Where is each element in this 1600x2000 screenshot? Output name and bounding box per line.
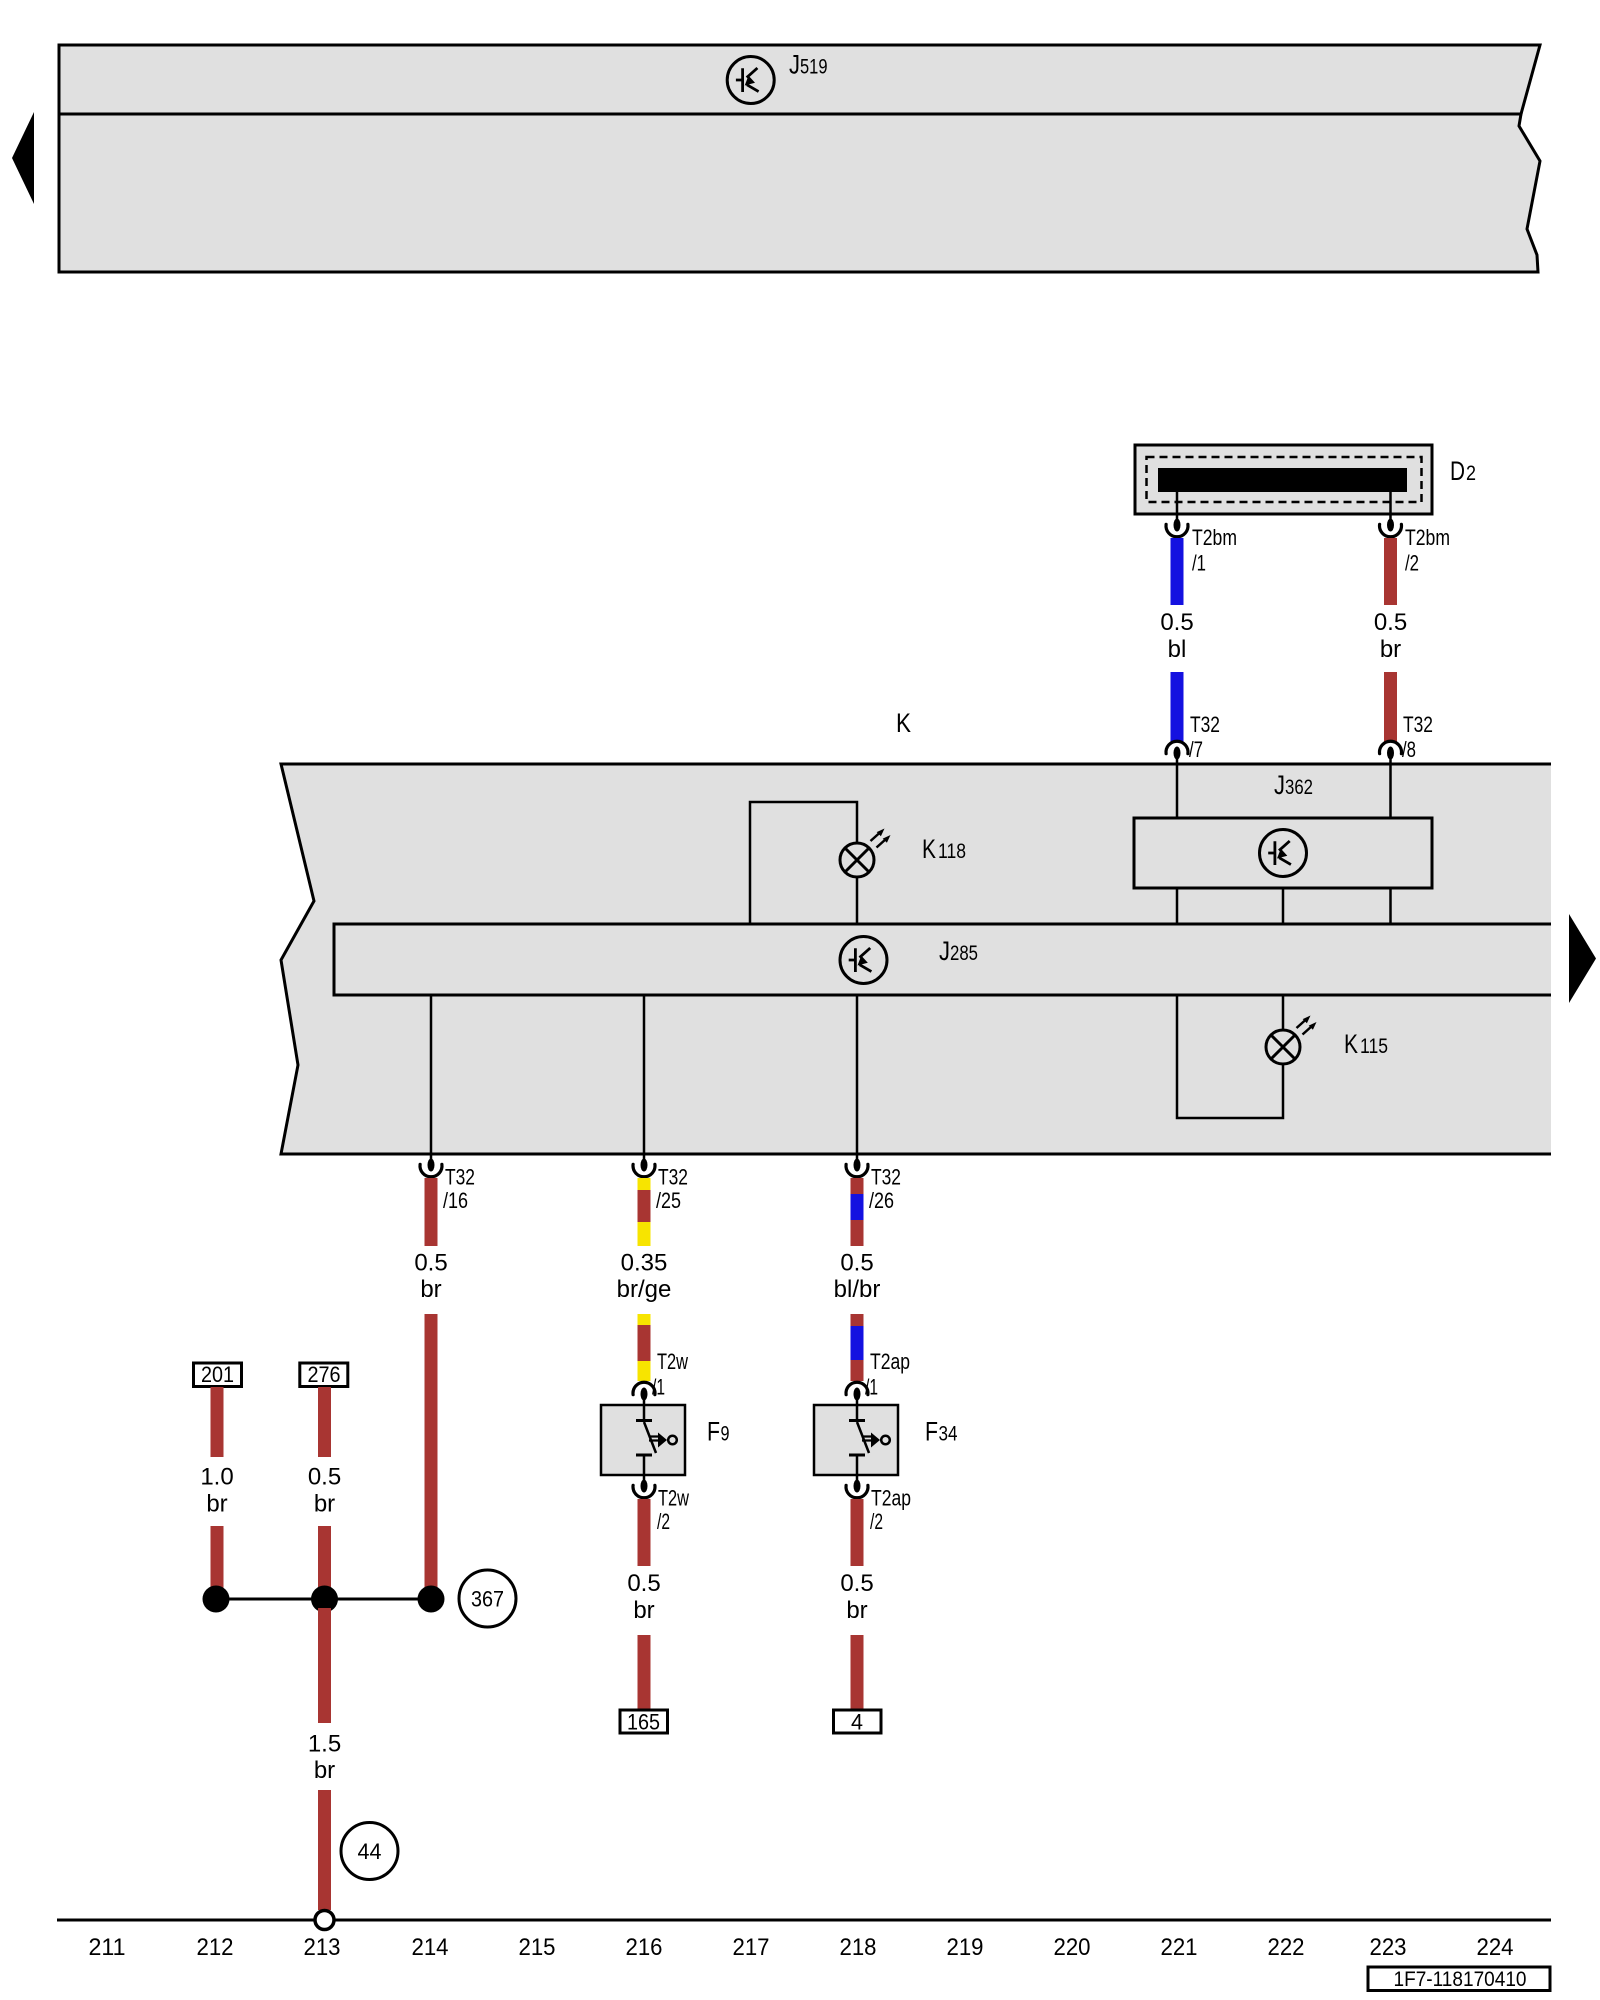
svg-text:bl: bl: [1168, 636, 1187, 663]
wire 0.5 bl (D2/1 to T32/7): [1171, 538, 1184, 605]
junction dot (276 branch): [311, 1586, 338, 1613]
terminal box 276: [300, 1363, 348, 1387]
wire 1.0 br (from 201) segment 2: [211, 1526, 224, 1593]
svg-text:0.5: 0.5: [627, 1570, 660, 1597]
svg-text:218: 218: [840, 1934, 877, 1961]
junction bus wire: [216, 1598, 431, 1601]
control unit symbol J362: [1260, 830, 1307, 877]
wire 1.0 br (from 201) segment 1: [211, 1387, 224, 1457]
svg-text:T32: T32: [1190, 712, 1220, 737]
svg-text:D: D: [1450, 456, 1465, 486]
node circle 44: [341, 1823, 398, 1880]
svg-text:/26: /26: [869, 1188, 894, 1213]
svg-text:118: 118: [938, 840, 966, 863]
switch F34 (brake fluid level warning contact): [814, 1405, 898, 1475]
control unit J362 (inside K): [1134, 818, 1432, 888]
svg-text:221: 221: [1161, 1934, 1198, 1961]
svg-text:285: 285: [950, 942, 978, 965]
svg-text:T32: T32: [658, 1165, 688, 1190]
svg-text:K: K: [922, 834, 936, 864]
svg-text:T2w: T2w: [657, 1349, 688, 1374]
wire 0.5 br (T32/16 down) segment 1: [425, 1178, 438, 1246]
svg-text:/25: /25: [656, 1188, 681, 1213]
wire 0.5 br (from 276) segment 2: [318, 1526, 331, 1593]
wire harness band J519: [59, 45, 1540, 114]
wire 0.5 br (F9/2 down) segment 1: [638, 1499, 651, 1566]
terminal box 201: [194, 1363, 242, 1387]
svg-text:367: 367: [471, 1587, 504, 1612]
junction dot (201 branch): [203, 1586, 230, 1613]
diagram number box 1F7-118170410: [1368, 1967, 1550, 1991]
svg-text:1F7-118170410: 1F7-118170410: [1394, 1968, 1527, 1991]
wire 0.5 br (T32/16 down) segment 2: [425, 1314, 438, 1592]
indicator lamp K115 wiring loop: [1177, 995, 1283, 1118]
svg-text:T2bm: T2bm: [1192, 525, 1237, 550]
svg-text:217: 217: [733, 1934, 770, 1961]
connector T2bm/1: [1166, 519, 1188, 537]
connector T2bm/2: [1380, 519, 1402, 537]
svg-text:T2ap: T2ap: [871, 1486, 911, 1511]
wire T32/8 to J362: [1389, 764, 1392, 818]
svg-text:213: 213: [304, 1934, 341, 1961]
svg-text:K: K: [896, 708, 911, 738]
wire 0.35 br/ge segment 1: [638, 1178, 651, 1246]
svg-text:4: 4: [851, 1710, 863, 1735]
svg-text:br: br: [206, 1491, 227, 1518]
svg-text:362: 362: [1285, 776, 1313, 799]
svg-text:/2: /2: [870, 1509, 883, 1534]
svg-text:br: br: [1380, 636, 1401, 663]
svg-text:0.35: 0.35: [621, 1250, 668, 1277]
wire 0.5 br (F34/2 down) segment 2: [851, 1635, 864, 1714]
svg-text:T32: T32: [1403, 712, 1433, 737]
svg-text:br: br: [420, 1276, 441, 1303]
svg-text:215: 215: [519, 1934, 556, 1961]
wire 0.35 br/ge segment 2: [638, 1314, 651, 1381]
svg-text:J: J: [939, 936, 950, 966]
svg-text:44: 44: [358, 1839, 382, 1864]
J362 to J285 stub wires: [1176, 888, 1179, 924]
svg-text:214: 214: [412, 1934, 449, 1961]
connector T2w/1: [633, 1382, 655, 1400]
wire 0.5 br (F34/2 down) segment 1: [851, 1499, 864, 1566]
svg-text:220: 220: [1054, 1934, 1091, 1961]
svg-text:519: 519: [800, 56, 828, 79]
wire 1.5 br segment 2: [318, 1790, 331, 1910]
svg-text:/7: /7: [1189, 737, 1203, 762]
svg-text:/2: /2: [1405, 551, 1419, 576]
wire 0.5 br (D2/2 to T32/8): [1384, 538, 1397, 605]
svg-text:216: 216: [626, 1934, 663, 1961]
svg-text:0.5: 0.5: [840, 1570, 873, 1597]
svg-text:222: 222: [1268, 1934, 1305, 1961]
svg-text:T2w: T2w: [658, 1486, 689, 1511]
svg-text:0.5: 0.5: [1160, 609, 1193, 636]
ground terminal box 4: [834, 1710, 882, 1733]
svg-text:J: J: [789, 50, 800, 80]
svg-text:276: 276: [308, 1362, 341, 1387]
control unit band J285 (inside K): [334, 924, 1551, 995]
svg-text:bl/br: bl/br: [834, 1276, 881, 1303]
indicator lamp K118 wiring loop: [750, 802, 857, 924]
connector T32/25: [643, 1154, 646, 1162]
svg-text:2: 2: [1466, 462, 1476, 485]
wire 0.5 br (F9/2 down) segment 2: [638, 1635, 651, 1714]
control unit symbol J285: [840, 937, 887, 984]
svg-text:T32: T32: [445, 1165, 475, 1190]
svg-text:/2: /2: [657, 1509, 670, 1534]
indicator lamp K118: [840, 829, 891, 878]
wire J285 to T32/26: [856, 995, 859, 1154]
right continuation arrow: [1569, 914, 1596, 1003]
wire harness band (continuation): [59, 114, 1540, 272]
svg-text:115: 115: [1360, 1035, 1388, 1058]
connector T2ap/1: [846, 1382, 868, 1400]
svg-text:201: 201: [201, 1362, 234, 1387]
svg-text:0.5: 0.5: [840, 1250, 873, 1277]
ground terminal box 165: [620, 1710, 668, 1733]
connector T32/26: [856, 1154, 859, 1162]
svg-text:T32: T32: [871, 1165, 901, 1190]
svg-text:0.5: 0.5: [414, 1250, 447, 1277]
svg-text:br: br: [846, 1597, 867, 1624]
svg-text:165: 165: [627, 1710, 660, 1735]
junction dot (T32/16 branch): [418, 1586, 445, 1613]
svg-text:223: 223: [1370, 1934, 1407, 1961]
svg-text:br: br: [633, 1597, 654, 1624]
svg-text:F: F: [925, 1417, 938, 1447]
control unit symbol J519: [727, 57, 774, 104]
indicator lamp K115: [1266, 1016, 1317, 1065]
node circle 367: [459, 1570, 516, 1627]
svg-text:/1: /1: [1192, 551, 1206, 576]
svg-text:K: K: [1344, 1029, 1358, 1059]
svg-text:9: 9: [721, 1423, 730, 1446]
switch F9 (handbrake warning switch): [601, 1405, 685, 1475]
ground connection point: [315, 1911, 334, 1930]
connector T32/8: [1380, 741, 1402, 759]
wire J285 to T32/16: [430, 995, 433, 1154]
svg-text:T2ap: T2ap: [870, 1349, 910, 1374]
left continuation arrow: [12, 112, 34, 204]
ground reference baseline: [57, 1919, 1551, 1922]
connector T32/16: [430, 1154, 433, 1162]
svg-text:F: F: [707, 1417, 720, 1447]
svg-text:1.5: 1.5: [308, 1731, 341, 1758]
svg-text:34: 34: [939, 1423, 958, 1446]
wire T32/7 to J362: [1176, 764, 1179, 818]
svg-text:br: br: [314, 1491, 335, 1518]
wire 0.5 bl/br segment 1: [851, 1178, 864, 1246]
D2 pin lines: [1176, 492, 1179, 519]
svg-text:224: 224: [1477, 1934, 1514, 1961]
component D2 (aerial/antenna module): [1135, 445, 1432, 514]
wire 1.5 br segment 1: [318, 1608, 331, 1723]
svg-text:br/ge: br/ge: [617, 1276, 672, 1303]
wire J285 to T32/25: [643, 995, 646, 1154]
svg-text:br: br: [314, 1757, 335, 1784]
connector T2w/2: [633, 1480, 655, 1498]
svg-text:J: J: [1274, 770, 1285, 800]
svg-text:/1: /1: [865, 1375, 878, 1400]
svg-text:211: 211: [89, 1934, 126, 1961]
svg-text:0.5: 0.5: [1374, 609, 1407, 636]
svg-text:0.5: 0.5: [308, 1464, 341, 1491]
control unit box K (instrument cluster): [281, 764, 1551, 1154]
wire 0.5 bl/br segment 2: [851, 1314, 864, 1381]
connector T2ap/2: [846, 1480, 868, 1498]
connector T32/7: [1166, 741, 1188, 759]
svg-text:/1: /1: [652, 1375, 665, 1400]
svg-text:1.0: 1.0: [200, 1464, 233, 1491]
svg-text:T2bm: T2bm: [1405, 525, 1450, 550]
svg-text:/8: /8: [1402, 737, 1416, 762]
wire 0.5 br (from 276) segment 1: [318, 1387, 331, 1457]
svg-text:/16: /16: [443, 1188, 468, 1213]
svg-text:219: 219: [947, 1934, 984, 1961]
svg-text:212: 212: [197, 1934, 234, 1961]
